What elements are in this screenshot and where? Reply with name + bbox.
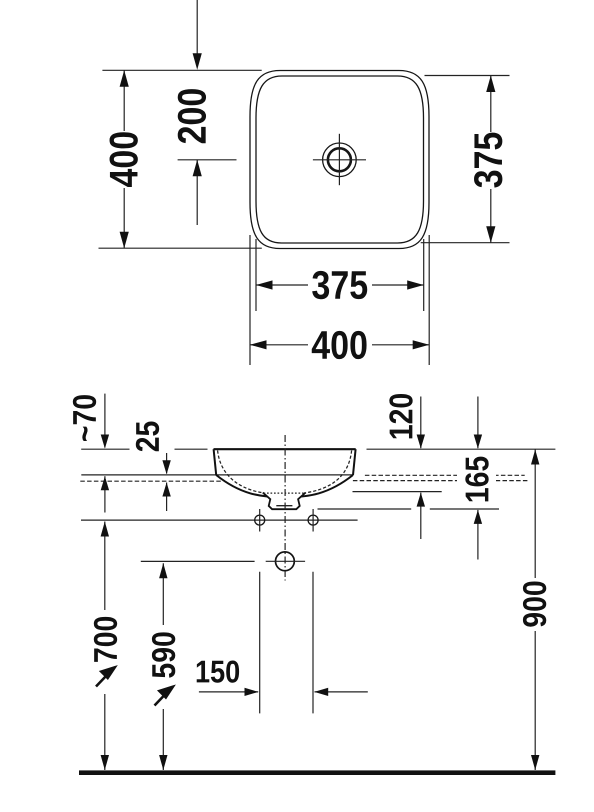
countertop line continued (dashed, right) — [365, 474, 525, 476]
label 375 bottom — [308, 268, 372, 302]
dimension 120 lower tail — [420, 493, 422, 539]
diagonal reference arrow for 590 — [155, 687, 173, 706]
arrow left 400-bottom — [250, 340, 267, 349]
arrow down 590 bottom — [159, 755, 167, 770]
dimension line 375 (bottom horizontal) — [256, 284, 424, 286]
drain inner circle (plan) — [328, 148, 351, 171]
arrow down 900 bottom — [531, 755, 539, 770]
label 150 — [197, 660, 239, 682]
tick line for 200 (drain center level) — [178, 159, 237, 161]
fixing hole left vertical tick — [259, 509, 261, 532]
countertop underside (dashed, left) — [80, 480, 222, 482]
alternate counter level line (for 120) — [353, 491, 442, 493]
extension line below plan, inner right — [423, 239, 425, 311]
diagonal reference arrow for 700 — [96, 667, 115, 686]
arrow down 700 bottom — [101, 755, 109, 770]
arrow up 700 top — [101, 522, 109, 537]
dimension line 590 — [162, 563, 164, 770]
dimension 150 left arrow tail — [199, 691, 258, 693]
basin outer rim (plan, rounded square 400x400) — [250, 71, 429, 249]
drain crosshair horizontal — [313, 159, 366, 161]
arrow down 25 — [162, 460, 170, 474]
arrow up ~70 lower — [101, 476, 109, 490]
fixing hole left circle — [255, 515, 265, 525]
basin front view: rim top — [214, 448, 356, 450]
arrow right 150 left — [245, 688, 259, 696]
arrow up 200 at drain level — [193, 160, 202, 177]
arrow down 375-right bottom — [486, 226, 495, 243]
countertop underside (dashed, right) — [353, 480, 528, 482]
dimension 120 upper line — [420, 397, 422, 449]
countertop line (solid) — [81, 474, 353, 476]
dimension line 400 (left vertical) — [123, 70, 125, 248]
rim level extension line left — [81, 448, 207, 450]
arrow down at plan top edge (200 leader) — [193, 53, 202, 70]
label 200 (rotated) — [178, 89, 206, 143]
dimension line 700 — [104, 522, 106, 771]
label 590 (rotated) — [150, 625, 177, 709]
basin hidden inner wall (dashed, left) — [218, 451, 263, 493]
label 700 (rotated) — [92, 610, 119, 694]
arrow up 900 top — [531, 450, 539, 465]
extension line, plan bottom edge — [99, 247, 262, 249]
extension line below plan, outer left — [249, 235, 251, 365]
extension line, inner bottom edge right — [421, 242, 510, 244]
arrow up 25 lower — [162, 483, 170, 497]
floor line — [79, 770, 555, 775]
arrow up 120 lower — [417, 493, 425, 507]
arrow up 375-right top — [486, 76, 495, 93]
dimension line 400 (bottom horizontal) — [250, 344, 429, 346]
arrow up 400-left top — [120, 70, 129, 87]
dimension 25 lower tail — [166, 483, 168, 512]
label 375 right (rotated) — [472, 132, 505, 189]
arrow down 165 — [474, 435, 482, 449]
fixing hole right circle — [308, 515, 318, 525]
arrow up 165 lower — [474, 510, 482, 524]
dimension line 375 (right vertical) — [490, 76, 492, 243]
fixing holes line — [81, 519, 358, 521]
extension line below plan, inner left — [255, 239, 257, 311]
label 120 (rotated) — [389, 394, 412, 438]
basin front view: left wall — [214, 449, 217, 475]
arrow down ~70 — [101, 435, 109, 449]
fixing hole right vertical tick — [312, 509, 314, 532]
arrow down 120 — [417, 435, 425, 449]
waste outlet crosshair horizontal — [266, 560, 305, 562]
dimension 165 lower tail — [477, 510, 479, 560]
label 400 left (rotated) — [107, 131, 140, 188]
extension line for 590 (waste level) — [141, 560, 255, 562]
dimension ~70 upper line — [104, 394, 106, 448]
dimension line 900 — [534, 450, 536, 771]
dimension 25 upper line — [166, 422, 168, 474]
dimension tail 200 (below tick) — [196, 160, 198, 225]
arrow right 375-bottom — [407, 280, 424, 289]
centering leader line from top edge — [196, 0, 198, 56]
arrow up 590 top — [159, 563, 167, 578]
basin inner rim (plan, bowl edge 375x375) — [256, 76, 424, 243]
arrow left 375-bottom — [256, 280, 273, 289]
rim level extension line right — [367, 448, 556, 450]
label 165 (rotated) — [457, 455, 496, 505]
label 25 (rotated) — [130, 419, 175, 453]
extension line, inner top edge right — [425, 75, 510, 77]
drain outer circle (plan) — [323, 143, 357, 177]
extension line, plan top edge — [102, 69, 261, 71]
waste outlet circle — [276, 552, 295, 571]
dimension 150 right arrow tail — [315, 691, 368, 693]
bowl bottom hidden edge (dotted across drain) — [264, 492, 306, 494]
extension line below plan, outer right — [428, 235, 430, 365]
label 900 (rotated) — [520, 578, 550, 631]
dimension 165 upper line — [477, 397, 479, 449]
dimension ~70 lower tail — [104, 476, 106, 512]
basin front view: right wall — [353, 449, 356, 475]
drain fitting inner edge — [276, 505, 292, 507]
extension line 150 left — [259, 572, 261, 714]
basin hidden inner wall (dashed, right) — [306, 451, 352, 493]
arrow down 400-left bottom — [120, 232, 129, 249]
basin front view: bowl underside curve — [216, 475, 353, 497]
vertical centerline (dash-dot) — [284, 435, 286, 581]
arrow left 150 right — [314, 688, 328, 696]
label 400 bottom — [308, 328, 372, 362]
drain fitting outline (front view) — [263, 493, 306, 510]
label ~70 (rotated) — [73, 395, 96, 441]
arrow right 400-bottom — [413, 340, 430, 349]
drain crosshair vertical — [338, 134, 340, 185]
extension line 150 right — [312, 572, 314, 714]
basin underside level line (for 165) — [318, 508, 412, 510]
